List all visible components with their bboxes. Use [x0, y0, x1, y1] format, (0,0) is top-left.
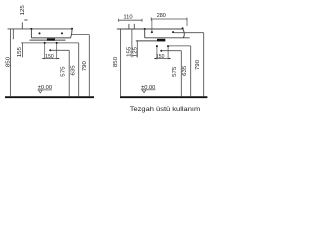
svg-text:Tezgah üstü kullanım: Tezgah üstü kullanım [130, 107, 201, 113]
bowl right side right-fig [183, 29, 185, 38]
rim dot right-b [182, 27, 184, 29]
svg-text:635: 635 [71, 65, 77, 75]
svg-text:125: 125 [132, 47, 138, 57]
dim vertical 790 right [203, 33, 205, 97]
bowl left side [30, 29, 32, 38]
bowl bottom [31, 37, 70, 39]
datum underline right [141, 89, 155, 91]
dim 110 line [119, 19, 142, 22]
dim vertical 635 left [78, 43, 80, 96]
inlet row stub right [168, 45, 191, 47]
dim line 850 left [9, 29, 11, 96]
counter line left [30, 39, 66, 41]
dim leader 125 right [136, 41, 138, 58]
tap side view [22, 20, 27, 29]
dim vertical 790 left [88, 35, 90, 97]
dim 150 line left [42, 57, 59, 59]
dim 150 extension lines left [45, 44, 57, 60]
short dim line left [12, 29, 14, 39]
svg-text:850: 850 [113, 57, 119, 67]
stub 790 left [71, 34, 89, 36]
dim 280 line [151, 18, 187, 21]
svg-text:790: 790 [195, 60, 201, 70]
dim 150 extension lines right [157, 47, 168, 59]
bowl right side [70, 29, 72, 38]
rim end dot left-b [71, 28, 73, 30]
rim end dot left-a [30, 28, 32, 30]
svg-text:280: 280 [157, 13, 166, 19]
datum triangle left [38, 90, 42, 93]
rim dot right-a [144, 28, 146, 30]
dim vertical 575 left [68, 50, 70, 96]
deck hole dot left-a [39, 32, 41, 34]
svg-text:±0.00: ±0.00 [38, 85, 52, 91]
svg-text:±0.00: ±0.00 [141, 85, 155, 91]
dim line 850 right [120, 29, 122, 96]
ext line 280 left [151, 20, 153, 31]
datum triangle right [142, 90, 146, 93]
tap hole dot right-a [151, 31, 153, 33]
svg-text:125: 125 [20, 5, 26, 15]
dim 150 arrows right [155, 58, 170, 59]
deck hole dot left-b [61, 32, 63, 34]
tap hole dot right-b [172, 31, 174, 33]
drain stub left [50, 49, 69, 51]
dim leader 155 right [131, 29, 133, 57]
dim vertical 575 right [180, 51, 182, 97]
svg-text:850: 850 [5, 57, 11, 67]
inlet dot right-b [167, 45, 169, 47]
drain slot left [47, 39, 55, 41]
floor line right [120, 96, 207, 98]
svg-text:790: 790 [82, 61, 88, 71]
inlet dot right-a [156, 45, 158, 47]
dim vertical 635 right [190, 46, 192, 96]
floor line left [5, 96, 94, 98]
svg-text:110: 110 [123, 15, 132, 21]
bowl left side right-fig [144, 29, 146, 38]
drain dot right [160, 50, 162, 52]
bowl bottom right-fig [145, 37, 190, 39]
svg-text:575: 575 [61, 67, 67, 77]
drain stub right [161, 50, 181, 52]
dim leader 155 left [21, 43, 23, 58]
ext line 280 right [186, 20, 188, 26]
inlet row line left [21, 42, 79, 44]
counter line right [136, 40, 166, 42]
datum underline left [38, 89, 53, 91]
rim line right [117, 28, 183, 30]
inlet dot left-b [56, 42, 58, 44]
svg-text:575: 575 [172, 67, 178, 77]
drain slot right [157, 39, 165, 42]
dim 150 line right [154, 58, 171, 60]
tap front view [129, 24, 134, 29]
drain dot left [49, 49, 51, 51]
dim 150 arrows left [43, 58, 59, 59]
inlet dot left-a [44, 42, 46, 44]
svg-text:150: 150 [156, 54, 164, 60]
stub 790 right [174, 32, 204, 34]
rim reference line left [8, 28, 73, 30]
svg-text:635: 635 [182, 66, 188, 76]
svg-text:150: 150 [45, 54, 53, 60]
